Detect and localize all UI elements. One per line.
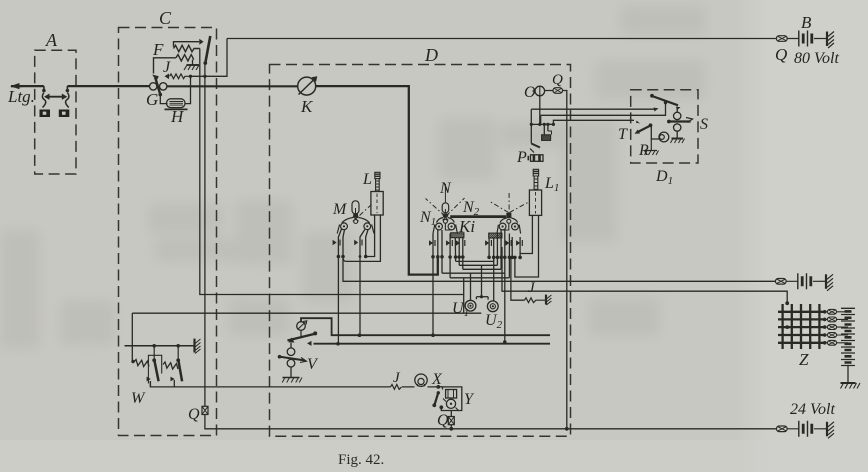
fuse Q (24V) [777, 426, 788, 432]
wire: top bus corner down to F contact row [191, 39, 228, 77]
coil above P [542, 131, 552, 140]
dashed box D1 [631, 90, 698, 163]
svg-text:N: N [439, 180, 452, 197]
switch V [278, 321, 318, 383]
bundle wires to D1 [530, 104, 666, 144]
svg-text:B: B [801, 13, 812, 32]
wire: main heavy line K to jack N1 frame [316, 86, 438, 275]
svg-text:Q: Q [188, 406, 200, 423]
arrester block left [40, 110, 51, 118]
dashed box A [35, 50, 76, 174]
wire: bracket vertical tee [463, 278, 465, 314]
relay W [125, 339, 201, 387]
svg-text:J: J [163, 59, 171, 76]
wire: W bracket to X Y [150, 381, 442, 387]
D1 relay S chain [667, 108, 693, 144]
fuse Q (top 80V) [777, 36, 788, 42]
svg-text:D: D [424, 45, 438, 65]
svg-text:R: R [638, 142, 649, 159]
N2 bar [450, 215, 506, 218]
O drop to bundle [539, 96, 541, 125]
L1 tails [520, 215, 532, 257]
resistor small on contact row [165, 74, 207, 80]
resistor F2 (J) [154, 55, 194, 74]
battery 24V [787, 421, 820, 437]
svg-text:L: L [362, 171, 372, 188]
node: arrester contact left in A [42, 86, 46, 107]
ground B [821, 32, 835, 49]
R ground left [645, 139, 659, 155]
dashed box D [270, 65, 571, 437]
M contact arrows [333, 240, 337, 245]
ground under F2 [184, 65, 199, 70]
dash-dot M to L [360, 205, 372, 216]
junction dot row [431, 255, 522, 259]
wire: main line Ltg to G [11, 85, 150, 87]
dashed box C [119, 28, 217, 436]
svg-text:Q: Q [437, 412, 449, 429]
resistor J (mid) with ground [511, 257, 552, 305]
M group contact wires [333, 215, 381, 346]
wire: O to Q fuse to D right-side drop [545, 91, 567, 429]
ground 24V [821, 422, 835, 439]
relay Y [436, 385, 461, 411]
ghost print-through bands [0, 5, 705, 350]
D1 switch T lower [635, 121, 660, 140]
Ki coil left [445, 223, 464, 237]
wire: line A from C vertical to jack bracket [200, 49, 464, 295]
wire: mid line y313 [132, 313, 481, 361]
lamp X [415, 374, 427, 386]
D1 switch T top blade [650, 94, 680, 112]
meter K [298, 76, 318, 95]
svg-text:F: F [152, 40, 164, 59]
svg-text:T: T [618, 126, 628, 143]
double arrow between contacts [44, 94, 67, 100]
wire: C vertical to bottom 24V [205, 63, 776, 429]
left N contact forest [429, 230, 465, 278]
plug L [371, 172, 383, 215]
svg-text:X: X [431, 371, 443, 388]
ground mid [820, 274, 834, 291]
lamp U1 [465, 273, 476, 311]
lamp tee bracket [476, 265, 488, 299]
wire: vertical x433 down to V line [432, 257, 434, 335]
svg-text:Q: Q [552, 72, 563, 88]
battery B [787, 31, 820, 47]
svg-text:24 Volt: 24 Volt [790, 401, 835, 418]
svg-text:P: P [516, 149, 527, 166]
plug L1 [529, 169, 541, 215]
arrow to line Ltg [10, 83, 22, 89]
resistor F1 [174, 39, 204, 52]
svg-text:H: H [170, 107, 185, 126]
svg-text:Fig. 42.: Fig. 42. [338, 452, 384, 468]
svg-text:Ki: Ki [458, 217, 475, 236]
svg-text:Ltg.: Ltg. [7, 87, 35, 106]
right N contact forest [485, 230, 522, 342]
relay R [659, 132, 669, 142]
battery stack right of Z [840, 308, 861, 388]
svg-text:C: C [159, 8, 172, 28]
electromagnet H [160, 78, 190, 110]
jack M [337, 201, 374, 234]
switch below X [432, 391, 451, 410]
svg-text:G: G [146, 90, 158, 109]
wire: V top line y335 [301, 318, 550, 335]
Ki coil right [489, 223, 509, 238]
svg-text:Z: Z [799, 350, 809, 369]
svg-text:Q: Q [775, 45, 787, 64]
svg-text:S: S [700, 116, 708, 133]
jack N left [433, 184, 457, 234]
selector grid Z [778, 301, 827, 349]
svg-text:W: W [131, 390, 146, 407]
resistor J (bottom) [391, 385, 402, 390]
svg-text:M: M [332, 201, 348, 218]
arrester block right [59, 110, 70, 118]
svg-text:K: K [300, 97, 314, 116]
lamp U2 [487, 257, 498, 311]
fuse Q near O [553, 88, 563, 94]
fuse Q (mid battery) [776, 279, 787, 285]
battery mid [786, 273, 819, 289]
nested brackets [431, 257, 509, 344]
svg-text:O: O [524, 84, 536, 101]
svg-text:80 Volt: 80 Volt [794, 50, 839, 67]
wire: main line G to K [167, 85, 298, 87]
wire: V lever line y343.7 [314, 343, 551, 345]
switch blade in C (to top bus) [203, 36, 210, 65]
svg-text:A: A [45, 30, 58, 50]
wire: Z line from right jack group [502, 247, 787, 303]
node: arrester contact right in A [66, 86, 70, 107]
switch P [528, 144, 543, 162]
wire: top bus 80V [227, 38, 776, 40]
fuse Q (under Y) [448, 411, 568, 431]
dash-dot rays right N [490, 193, 528, 213]
fuse Q (C box bottom) [202, 406, 208, 414]
Z row fuses [825, 309, 840, 345]
jack N right [497, 213, 521, 234]
relay G blade and circles [150, 75, 167, 97]
M dots [337, 255, 341, 259]
plug L tails [366, 215, 375, 257]
wire: battery row line from M jack [343, 257, 775, 282]
dash-dot rays left N [426, 198, 465, 216]
relay O [533, 86, 545, 96]
